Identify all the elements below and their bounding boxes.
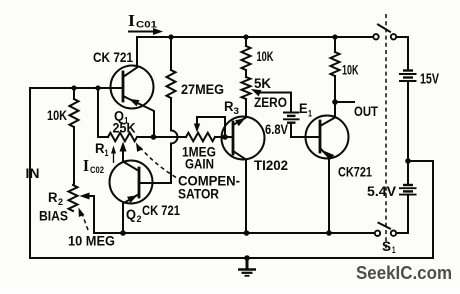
svg-text:R: R (48, 190, 58, 205)
transistor Q3 circle (306, 116, 349, 159)
wire Q1 collector riser (136, 37, 138, 67)
potentiometer R2 wiper (88, 195, 94, 197)
wire OUT stub (335, 101, 354, 103)
svg-text:OUT: OUT (354, 104, 379, 119)
transistor Q1 collector lead (123, 68, 137, 78)
svg-text:C02: C02 (90, 165, 104, 175)
svg-text:IN: IN (26, 166, 40, 181)
transistor Q2 base bar (138, 168, 141, 197)
wire top supply rail (137, 36, 374, 38)
svg-text:25K: 25K (113, 121, 136, 136)
svg-text:C01: C01 (136, 20, 157, 30)
wire input line vertical (30, 88, 123, 258)
transistor Q2 emitter arrow (PNP) (127, 195, 138, 203)
svg-text:GAIN: GAIN (185, 157, 214, 172)
switch upper terminal right (391, 34, 396, 39)
potentiometer R1 25K body (108, 133, 137, 141)
transistor TI202 base bar (232, 122, 235, 154)
svg-text:15V: 15V (420, 71, 439, 88)
wire 5.4V to switch S (396, 195, 408, 233)
potentiometer R2 10 MEG body (69, 185, 78, 211)
svg-text:5K: 5K (254, 76, 271, 91)
battery 15V plates (403, 69, 413, 71)
node OUT junction (332, 99, 338, 105)
transistor Q1 emitter arrow (PNP) (129, 99, 140, 107)
resistor 10K upper (242, 46, 251, 70)
resistor 27MEG leads (170, 37, 172, 70)
svg-text:Q: Q (126, 207, 136, 222)
battery E1 plates (283, 112, 300, 114)
transistor Q3 collector lead (320, 102, 335, 126)
svg-text:2: 2 (137, 214, 142, 224)
transistor Q1 base bar (122, 72, 125, 101)
wire E1 bottom to output base (291, 123, 306, 137)
switch gang dashed link (385, 14, 387, 250)
dashed annotation arrow to R1 (140, 147, 176, 178)
node Q3 emitter-rail junction (326, 230, 332, 236)
svg-text:E: E (299, 101, 308, 116)
svg-text:10K: 10K (257, 49, 274, 64)
svg-text:1: 1 (308, 109, 312, 119)
ground (246, 258, 249, 269)
potentiometer 1MEG wiper strap (197, 117, 225, 137)
wire 1MEG right to TI202 base (215, 136, 233, 138)
node 27MEG top junction (168, 34, 173, 39)
svg-text:I: I (83, 156, 89, 175)
arrow IC02 current (113, 151, 115, 163)
node ground junction (244, 255, 250, 261)
svg-text:CK 721: CK 721 (93, 50, 133, 65)
battery 5.4V plates (403, 184, 413, 186)
switch lower terminal left (375, 231, 380, 236)
svg-text:SATOR: SATOR (178, 187, 219, 202)
node Q1 emitter junction (151, 134, 157, 140)
svg-text:TI202: TI202 (254, 158, 288, 173)
svg-text:10 MEG: 10 MEG (68, 234, 115, 249)
node battery midpoint junction (405, 158, 411, 164)
wire 25K to 1MEG (137, 136, 186, 138)
switch lower terminal right (391, 231, 396, 236)
wire 25K left feed (98, 88, 108, 137)
wire bottom ground rail (30, 257, 433, 259)
switch upper terminal left (373, 34, 378, 39)
wire 5K to TI202 emitter (245, 99, 247, 117)
node 1MEG wiper junction (222, 134, 228, 140)
svg-text:CK721: CK721 (338, 165, 372, 180)
svg-text:CK 721: CK 721 (142, 203, 180, 218)
svg-text:10K: 10K (342, 63, 359, 78)
potentiometer R3 5K body (242, 77, 251, 99)
svg-text:27MEG: 27MEG (181, 82, 224, 97)
svg-text:R: R (95, 141, 105, 156)
resistor 10K output leads (334, 37, 336, 52)
transistor Q1 emitter lead (123, 96, 154, 137)
resistor 10K input leads (73, 88, 75, 99)
node Q2 emitter-rail junction (120, 230, 126, 236)
node 10K output top junction (332, 34, 337, 39)
transistor TI202 emitter lead up (233, 118, 246, 126)
node base-25K junction (95, 85, 100, 90)
transistor TI202 collector lead down (233, 151, 246, 233)
resistor 27MEG (167, 70, 176, 98)
node TI202-rail junction (244, 230, 250, 236)
svg-text:SeekIC.com: SeekIC.com (356, 262, 452, 283)
svg-text:6.8V: 6.8V (265, 122, 288, 137)
transistor Q3 emitter arrow (PNP) (325, 151, 335, 160)
switch lower blade (379, 223, 391, 229)
potentiometer 1MEG body (186, 133, 215, 141)
wire 27MEG to Q2 base (139, 144, 171, 184)
transistor Q2 emitter lead (123, 194, 139, 233)
svg-text:I: I (128, 11, 135, 30)
transistor Q3 emitter lead (320, 148, 329, 233)
svg-text:1: 1 (392, 245, 396, 255)
svg-text:BIAS: BIAS (39, 209, 68, 224)
wire hop over 25K line (171, 131, 178, 144)
transistor TI202 emitter arrow (NPN) (235, 118, 245, 126)
arrow IC01 direction (129, 31, 155, 33)
node base-10K junction (71, 85, 76, 90)
dashed annotation arrow to R2 (82, 212, 89, 230)
svg-text:R: R (224, 99, 234, 114)
transistor TI202 circle (222, 117, 265, 160)
transistor Q2 collector lead + 25K wiper arrow (123, 149, 139, 171)
resistor 10K output (331, 52, 340, 76)
node 10K-R3 top junction (243, 34, 248, 39)
wire Q3 base from E1 (306, 136, 320, 138)
wire 15V to 5.4V (407, 81, 409, 185)
resistor 10K input (70, 99, 79, 127)
switch upper blade (378, 25, 390, 32)
svg-text:10K: 10K (47, 108, 67, 123)
transistor Q2 circle (110, 161, 153, 204)
transistor Q3 base bar (319, 121, 322, 152)
transistor Q1 circle (111, 66, 154, 109)
svg-text:2: 2 (58, 197, 63, 207)
svg-text:5.4V: 5.4V (367, 184, 396, 199)
svg-text:ZERO: ZERO (254, 95, 287, 110)
svg-text:1: 1 (105, 148, 109, 158)
potentiometer R3 wiper to E1 (258, 93, 291, 113)
wire negative rail (94, 232, 375, 234)
wire switch to 15V (397, 37, 409, 70)
svg-text:3: 3 (234, 106, 240, 116)
wire right return loop (407, 161, 433, 258)
resistor 10K upper leads (245, 37, 247, 46)
